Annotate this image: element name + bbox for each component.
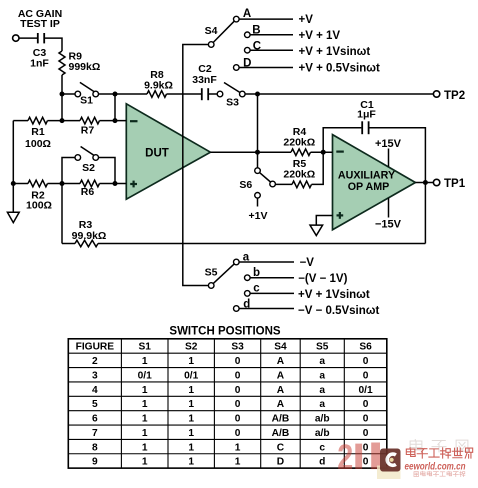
svg-text:TP1: TP1 — [444, 178, 466, 190]
svg-text:DUT: DUT — [145, 148, 169, 160]
svg-text:1: 1 — [188, 414, 194, 425]
svg-text:S4: S4 — [274, 342, 287, 353]
svg-text:220kΩ: 220kΩ — [283, 136, 315, 148]
svg-text:a/b: a/b — [315, 414, 330, 425]
svg-text:1: 1 — [142, 399, 148, 410]
svg-text:999kΩ: 999kΩ — [69, 61, 101, 73]
svg-text:S2: S2 — [185, 342, 198, 353]
svg-text:TEST IP: TEST IP — [20, 18, 60, 30]
svg-text:+V + 0.5Vsinωt: +V + 0.5Vsinωt — [299, 63, 380, 75]
svg-text:D: D — [243, 57, 251, 69]
svg-text:S5: S5 — [205, 266, 218, 278]
svg-text:1: 1 — [142, 428, 148, 439]
svg-text:c: c — [319, 442, 325, 453]
svg-text:S1: S1 — [80, 95, 93, 107]
svg-text:0: 0 — [363, 457, 369, 468]
svg-text:B: B — [252, 25, 260, 37]
svg-text:A: A — [243, 8, 251, 20]
svg-text:1: 1 — [235, 442, 241, 453]
svg-text:AUXILIARY: AUXILIARY — [338, 170, 395, 182]
svg-text:0: 0 — [363, 442, 369, 453]
svg-text:0: 0 — [235, 385, 241, 396]
svg-text:+V: +V — [299, 14, 314, 26]
svg-text:−V: −V — [300, 257, 315, 269]
svg-text:A: A — [277, 385, 285, 396]
svg-text:1: 1 — [188, 457, 194, 468]
svg-text:1: 1 — [142, 385, 148, 396]
svg-text:1: 1 — [235, 457, 241, 468]
svg-text:0: 0 — [363, 370, 369, 381]
svg-text:0: 0 — [235, 370, 241, 381]
svg-text:S4: S4 — [205, 25, 218, 37]
svg-text:0: 0 — [363, 414, 369, 425]
svg-text:1: 1 — [142, 356, 148, 367]
svg-text:9: 9 — [92, 457, 98, 468]
svg-text:A/B: A/B — [272, 428, 290, 439]
svg-text:0: 0 — [235, 356, 241, 367]
svg-text:D: D — [277, 457, 284, 468]
svg-text:1: 1 — [188, 442, 194, 453]
svg-text:4: 4 — [92, 385, 98, 396]
svg-text:R7: R7 — [81, 125, 95, 137]
svg-text:6: 6 — [92, 414, 98, 425]
svg-text:9.9kΩ: 9.9kΩ — [144, 79, 173, 91]
svg-text:a: a — [319, 370, 325, 381]
svg-text:−(V − 1V): −(V − 1V) — [298, 273, 347, 285]
svg-text:1: 1 — [188, 356, 194, 367]
svg-text:0: 0 — [235, 428, 241, 439]
svg-text:A/B: A/B — [272, 414, 290, 425]
svg-text:−15V: −15V — [375, 219, 402, 231]
svg-text:1: 1 — [142, 442, 148, 453]
svg-text:1: 1 — [142, 457, 148, 468]
svg-text:100Ω: 100Ω — [26, 199, 52, 211]
svg-text:S3: S3 — [226, 96, 239, 108]
svg-text:eeworld.com.cn: eeworld.com.cn — [405, 461, 466, 473]
svg-text:a/b: a/b — [315, 428, 330, 439]
svg-text:+1V: +1V — [249, 210, 268, 222]
svg-text:1: 1 — [188, 428, 194, 439]
svg-text:d: d — [319, 457, 325, 468]
svg-text:1nF: 1nF — [30, 58, 49, 70]
svg-text:99.9kΩ: 99.9kΩ — [72, 230, 107, 242]
svg-text:1μF: 1μF — [357, 109, 376, 121]
svg-text:100Ω: 100Ω — [25, 138, 51, 150]
svg-text:OP AMP: OP AMP — [348, 181, 390, 193]
svg-text:C: C — [277, 442, 285, 453]
svg-text:−V − 0.5Vsinωt: −V − 0.5Vsinωt — [298, 305, 379, 317]
svg-text:0/1: 0/1 — [184, 370, 198, 381]
svg-text:3: 3 — [92, 370, 98, 381]
svg-text:a: a — [319, 399, 325, 410]
svg-text:+V + 1V: +V + 1V — [299, 30, 341, 42]
svg-text:A: A — [277, 399, 285, 410]
svg-text:0: 0 — [363, 428, 369, 439]
svg-text:+V + 1Vsinωt: +V + 1Vsinωt — [298, 289, 370, 301]
svg-text:A: A — [277, 370, 285, 381]
svg-text:33nF: 33nF — [192, 74, 217, 86]
svg-text:FIGURE: FIGURE — [76, 342, 115, 353]
svg-text:0: 0 — [363, 356, 369, 367]
svg-text:8: 8 — [92, 442, 98, 453]
svg-text:+V + 1Vsinωt: +V + 1Vsinωt — [299, 46, 371, 58]
svg-text:S1: S1 — [138, 342, 151, 353]
svg-text:0: 0 — [235, 399, 241, 410]
svg-text:S3: S3 — [231, 342, 244, 353]
svg-text:a: a — [319, 385, 325, 396]
svg-text:0/1: 0/1 — [138, 370, 152, 381]
svg-text:2: 2 — [92, 356, 98, 367]
svg-text:1: 1 — [188, 385, 194, 396]
svg-text:1: 1 — [142, 414, 148, 425]
svg-text:+15V: +15V — [375, 138, 402, 150]
svg-text:0: 0 — [363, 399, 369, 410]
svg-text:TP2: TP2 — [444, 90, 465, 102]
svg-text:d: d — [243, 299, 250, 311]
svg-text:c: c — [253, 283, 260, 295]
svg-text:7: 7 — [92, 428, 98, 439]
svg-text:a: a — [243, 251, 250, 263]
svg-text:0: 0 — [235, 414, 241, 425]
svg-text:SWITCH POSITIONS: SWITCH POSITIONS — [169, 326, 281, 338]
svg-text:S2: S2 — [82, 162, 95, 174]
svg-text:S6: S6 — [239, 179, 252, 191]
svg-text:2: 2 — [337, 438, 353, 477]
svg-text:A: A — [277, 356, 285, 367]
svg-text:5: 5 — [92, 399, 98, 410]
svg-text:S5: S5 — [316, 342, 329, 353]
svg-text:1: 1 — [188, 399, 194, 410]
svg-text:220kΩ: 220kΩ — [283, 169, 315, 181]
svg-text:C: C — [253, 41, 261, 53]
svg-text:S6: S6 — [359, 342, 372, 353]
svg-text:R1: R1 — [31, 126, 45, 138]
svg-text:0/1: 0/1 — [358, 385, 372, 396]
svg-text:a: a — [319, 356, 325, 367]
svg-text:R6: R6 — [81, 186, 95, 198]
svg-text:b: b — [253, 267, 260, 279]
